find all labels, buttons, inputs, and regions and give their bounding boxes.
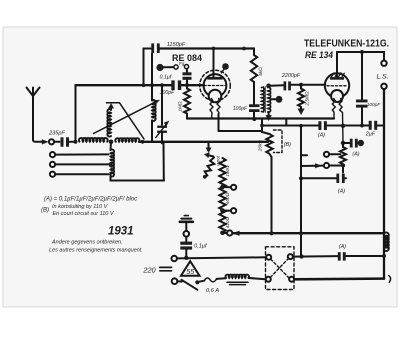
inductor mains filter: [226, 275, 249, 285]
node: [203, 175, 207, 179]
capacitor 2200pF: [281, 73, 301, 90]
terminal T1: [50, 152, 55, 157]
svg-text:RE 084: RE 084: [172, 53, 203, 64]
wire tap 3: [55, 173, 108, 175]
wire 100pF output branch: [361, 52, 363, 99]
svg-text:L.S.: L.S.: [376, 74, 388, 81]
wire divider right leg: [271, 157, 273, 233]
svg-text:Andere gegevens ontbreken.: Andere gegevens ontbreken.: [51, 240, 123, 246]
svg-text:420Ω: 420Ω: [225, 216, 230, 228]
svg-text:TELEFUNKEN-121G.: TELEFUNKEN-121G.: [304, 38, 389, 50]
svg-text:(A) = 0,1µF/1µF/2µF/2µF/2µF/ b: (A) = 0,1µF/1µF/2µF/2µF/2µF/ bloc: [44, 197, 137, 203]
wire: [253, 112, 255, 119]
transformer RF choke core: [264, 87, 266, 113]
capacitor (A) output: [338, 244, 346, 261]
terminal divider tap 2: [231, 208, 236, 213]
wire anode supply rail top: [160, 47, 254, 49]
terminal LS1: [381, 61, 386, 66]
terminal tap 1: [324, 152, 329, 157]
node coil B tap on grid rail: [150, 83, 154, 87]
wire filament rail B: [219, 130, 263, 132]
wire rails link: [285, 119, 287, 126]
svg-text:(A): (A): [339, 244, 346, 250]
coupling arrow coil A top: [107, 103, 145, 139]
svg-text:0,1µf: 0,1µf: [194, 244, 208, 250]
wire: [185, 237, 187, 242]
wire bottom return thick: [294, 277, 384, 280]
inductor L1a antenna coil left: [79, 138, 108, 142]
node: [252, 117, 256, 121]
capacitor 235pF: [48, 131, 69, 147]
node: [341, 124, 345, 128]
wire grid jack to grid capacitor: [186, 69, 188, 72]
wire LS drop: [383, 52, 385, 60]
node divider tap 1: [220, 185, 225, 190]
node: [109, 163, 113, 167]
wire: [186, 80, 188, 85]
svg-text:RE 134: RE 134: [305, 50, 333, 60]
wire to 2200pF: [271, 84, 284, 87]
wire coil C top link: [110, 142, 113, 150]
switch contact BL: [266, 277, 271, 282]
resistor 20k: [258, 134, 273, 157]
wire coil C bottom return: [111, 174, 165, 180]
wire mains top line: [177, 257, 266, 258]
node grid leak junction: [185, 83, 189, 87]
wire RE084 right filament to rail B: [218, 114, 220, 131]
resistor filament dropper: [340, 143, 346, 172]
reversing switch dashed box: [266, 247, 295, 290]
wire rail A to rail B link: [261, 119, 263, 132]
wire filament tap 1: [329, 153, 340, 155]
wire: [223, 186, 231, 188]
svg-text:1931: 1931: [108, 225, 134, 237]
capacitor 2uF: [365, 121, 377, 138]
node: [299, 254, 303, 258]
capacitor (A) bias: [336, 174, 345, 195]
wire anode rail RE134: [337, 51, 384, 53]
capacitor (A) with plug: [350, 139, 364, 158]
svg-text:160Ω: 160Ω: [225, 165, 230, 177]
svg-text:2,5MΩ: 2,5MΩ: [305, 91, 311, 107]
wire RE134 grid line: [291, 84, 325, 86]
wire grid rail: [76, 84, 205, 86]
node: [360, 124, 364, 128]
wire: [346, 255, 384, 257]
transformer bottom arrow: [266, 112, 272, 121]
inductor L3 (coil A) vertical: [107, 109, 111, 137]
wire: [54, 141, 59, 143]
wire right bus: [383, 89, 385, 279]
node: [142, 83, 146, 87]
wire: [70, 141, 76, 143]
svg-text:(A): (A): [318, 133, 325, 139]
inductor L2 (coil B): [152, 100, 156, 121]
terminal tap 2: [324, 163, 329, 168]
transformer winding left: [262, 87, 265, 111]
capacitor 100pF output: [356, 100, 381, 108]
node transformer top: [266, 84, 271, 89]
svg-text:(B): (B): [284, 142, 291, 148]
node: [341, 163, 345, 167]
switch blade: [177, 280, 204, 290]
tube RE134: [325, 52, 349, 143]
svg-text:En court circuit sur 110 V: En court circuit sur 110 V: [53, 211, 115, 217]
wire tap 2: [55, 163, 108, 165]
svg-text:1MΩ: 1MΩ: [178, 101, 184, 112]
svg-text:0,1µf: 0,1µf: [160, 75, 172, 81]
node: [109, 140, 114, 145]
capacitor 0.1uF mains: [180, 242, 208, 250]
wire bias bus vertical: [300, 126, 302, 257]
node: [141, 140, 145, 144]
wire: [223, 210, 231, 212]
wire: [161, 133, 163, 141]
mains equals sign: [160, 267, 172, 270]
svg-text:600Ω: 600Ω: [225, 192, 230, 204]
wire: [223, 232, 228, 234]
wire coil B riser: [151, 54, 153, 101]
svg-text:5kΩ: 5kΩ: [258, 67, 264, 76]
node: [360, 50, 364, 54]
antenna terminal: [49, 139, 54, 144]
wire decoupling rail: [262, 125, 384, 127]
svg-text:235pF: 235pF: [48, 131, 65, 137]
svg-text:220: 220: [142, 266, 156, 275]
wire tap 1: [55, 153, 108, 155]
wire filament rail A: [187, 117, 334, 119]
antenna: [27, 88, 48, 145]
svg-text:100pF: 100pF: [233, 106, 248, 112]
svg-text:20kΩ: 20kΩ: [258, 139, 264, 152]
svg-text:(A): (A): [338, 189, 345, 195]
node: [382, 254, 386, 258]
node divider bottom: [220, 231, 225, 236]
svg-text:55: 55: [186, 269, 194, 276]
capacitor 1150pF: [151, 42, 186, 53]
node tuning cap tap: [160, 83, 164, 87]
grid cap lead plug: [156, 61, 188, 71]
terminal T3: [50, 172, 55, 177]
svg-text:0,6 A: 0,6 A: [206, 288, 219, 294]
bracket mark: [389, 276, 391, 283]
tube RE084: [200, 49, 231, 119]
transformer winding right: [268, 87, 271, 112]
wire tuning cap bottom to coil return: [163, 142, 165, 180]
svg-text:100pF: 100pF: [367, 102, 382, 108]
transformer tap plug dot: [271, 96, 283, 103]
wire bias rail: [301, 177, 346, 179]
terminal divider bottom: [227, 230, 232, 235]
resistor 1M grid leak: [178, 85, 191, 118]
switch contact TL: [266, 255, 271, 260]
wire cap (A) bias link: [341, 141, 345, 145]
resistor 2.5M grid leak RE134: [298, 85, 311, 115]
potentiometer wiper arrow: [205, 142, 214, 158]
svg-text:2200pF: 2200pF: [281, 73, 301, 79]
node: [160, 140, 164, 144]
wire 1150pF branch riser: [144, 49, 152, 86]
capacitor grid coupling: [183, 72, 192, 80]
switch contact TR: [288, 254, 293, 259]
wire: [249, 278, 266, 279]
svg-text:Les autres renseignements manq: Les autres renseignements manquent.: [49, 248, 143, 254]
node antenna junction: [74, 140, 78, 144]
terminal divider tap 1: [231, 185, 236, 190]
svg-text:(A): (A): [352, 152, 359, 158]
wire riser to grid rail: [75, 85, 77, 142]
svg-text:1150pF: 1150pF: [167, 42, 186, 48]
inductor L1b antenna coil right: [115, 138, 139, 142]
wire: [185, 250, 187, 258]
node: [299, 231, 303, 235]
fuse 0.6A squiggle: [204, 278, 226, 294]
wire filament tap 2 with arrow: [301, 164, 341, 168]
ground / aerial earth stack: [180, 216, 193, 231]
resistor voltage divider chain: [219, 158, 225, 233]
capacitor 100pF grid series: [160, 75, 182, 96]
wire: [361, 108, 363, 126]
capacitor 100pF detector: [233, 104, 260, 112]
inductor L4 (coil C) tapped: [111, 149, 115, 176]
wire coil B to secondary rail: [151, 121, 153, 142]
node: [242, 47, 246, 51]
node: [260, 124, 264, 128]
resistor 5k anode: [251, 49, 264, 105]
node divider tap 2: [220, 208, 225, 213]
svg-text:2µF: 2µF: [365, 132, 376, 138]
node: [184, 256, 188, 260]
node: [269, 231, 273, 235]
wire cathode return rail: [139, 141, 268, 143]
wire HT minus rail with arrow: [233, 231, 385, 236]
resistor potentiometer diagonal: [205, 158, 215, 177]
wire switch TR to cap: [293, 255, 338, 258]
terminal LS2: [381, 84, 386, 89]
choke on right bus: [384, 232, 389, 251]
wire 20k drop: [262, 131, 270, 134]
variable capacitor C tune: [156, 121, 169, 138]
node: [299, 176, 303, 180]
switch contact BR: [289, 277, 294, 282]
node: [299, 83, 303, 87]
terminal mains bottom: [172, 278, 178, 284]
svg-text:In kortsluiting by 110 V: In kortsluiting by 110 V: [52, 204, 109, 210]
coupling arrow long diagonal: [94, 100, 160, 134]
svg-text:(B): (B): [41, 208, 49, 214]
terminal T2: [50, 162, 55, 167]
capacitor (A) decoupling 1: [318, 121, 327, 138]
dashed bracket (B): [274, 130, 292, 153]
node: [299, 124, 303, 128]
wire tuning cap riser: [161, 85, 163, 125]
switch crossover dashed X: [270, 259, 288, 278]
terminal mains top: [172, 256, 177, 261]
node plate junction: [212, 47, 216, 51]
terminal earth: [184, 231, 190, 237]
fuse lamp triangle 55: [181, 261, 200, 276]
